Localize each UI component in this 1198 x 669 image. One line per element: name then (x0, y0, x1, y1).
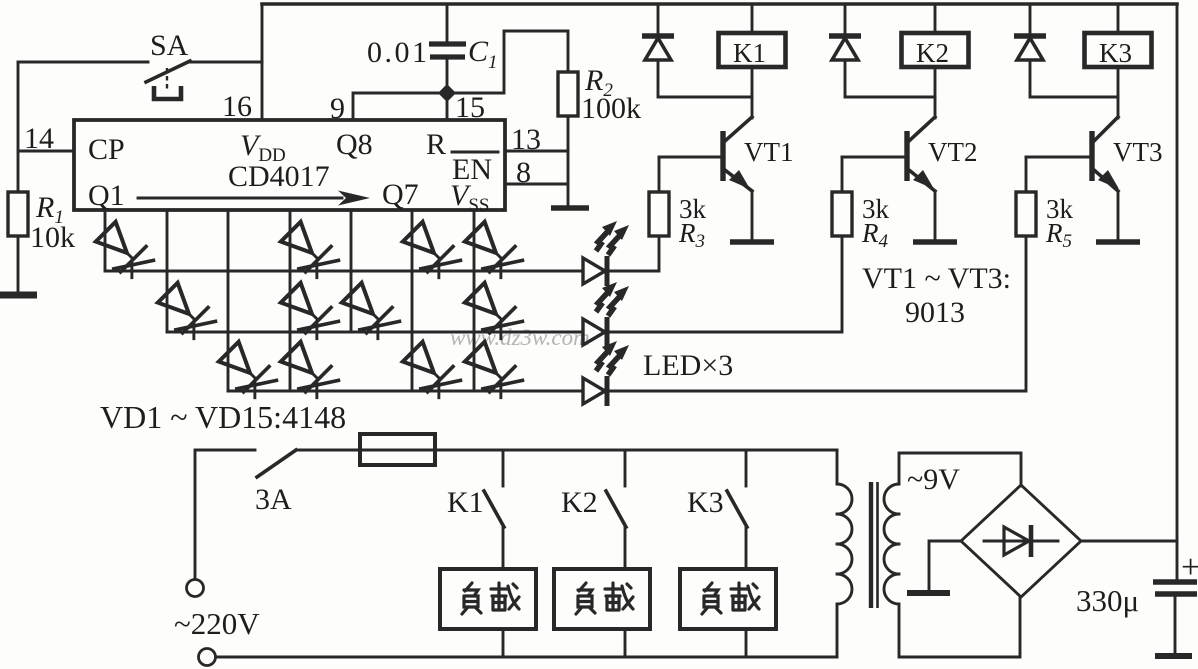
diode (bridge symbol) (984, 540, 1058, 543)
resistor R1 (8, 192, 28, 236)
node: junction at pin15 (438, 84, 456, 102)
resistor R5 3k (1016, 192, 1036, 236)
svg-text:100k: 100k (581, 92, 641, 125)
bridge rectifier diamond (961, 485, 1081, 597)
svg-text:VT3: VT3 (1113, 137, 1163, 167)
ground (VT3 emitter) (1096, 239, 1140, 245)
svg-text:~220V: ~220V (174, 606, 260, 641)
wire: emitter to ground (1117, 191, 1120, 240)
wire: pin8 lead (508, 183, 568, 186)
ground (bridge) (907, 590, 950, 596)
svg-text:Q1: Q1 (88, 179, 125, 212)
svg-text:14: 14 (24, 122, 54, 155)
wire: base lead (1026, 156, 1092, 159)
diode VD3 (matrix col 6 row 1) (397, 219, 464, 286)
svg-text:9013: 9013 (905, 296, 965, 329)
wire: relay K2 top lead (934, 4, 937, 33)
wire: CD4017 output column 4 (289, 210, 292, 391)
LED 2 (583, 319, 605, 345)
svg-text:VT2: VT2 (928, 137, 978, 167)
diode VD11 (matrix col 6 row 3) (397, 339, 464, 406)
svg-text:8: 8 (516, 156, 531, 189)
wire: primary bottom to neutral (836, 604, 839, 657)
capacitor C1 0.01 (429, 44, 466, 57)
diode (freewheel, by K2) (829, 36, 861, 60)
svg-text:CP: CP (88, 133, 125, 166)
wire: 220V live up and across (195, 450, 255, 579)
svg-text:K3: K3 (1099, 38, 1132, 68)
svg-text:K1: K1 (447, 486, 484, 519)
svg-text:R: R (426, 128, 446, 161)
wire: junction to R2 top (454, 31, 568, 93)
wire: base to R3 (658, 157, 661, 192)
wire: base to R5 (1025, 157, 1028, 192)
relay coil K3 (1085, 33, 1152, 67)
switch contact K3 (727, 491, 747, 527)
transistor Q3: VT3 (1089, 131, 1094, 181)
ground (R1) (0, 292, 37, 299)
transistor Q1: VT1 (720, 131, 725, 181)
svg-text:Q7: Q7 (382, 178, 419, 211)
svg-text:VT1: VT1 (744, 137, 794, 167)
transformer T primary winding (836, 450, 839, 484)
wire: VD3 freewheel diode top lead (1029, 4, 1032, 34)
svg-text:16: 16 (222, 90, 252, 123)
wire: contact to load 2 (624, 527, 627, 569)
svg-text:10k: 10k (30, 221, 75, 254)
fuse 3A (360, 434, 435, 465)
wire: pin13 lead (508, 150, 568, 153)
wire: base lead (842, 156, 907, 159)
wire: right supply rail (1176, 4, 1179, 580)
wire: contact to load 1 (502, 527, 505, 569)
wire: CD4017 output column 7 (473, 210, 476, 391)
svg-text:K2: K2 (561, 486, 598, 519)
wire: K1 contact stub (502, 450, 505, 486)
wire: load 2 to neutral (624, 629, 627, 657)
wire: matrix row 1 (105, 270, 583, 273)
wire: left vertical to R1 (17, 62, 20, 192)
load box 1 (fu zai) (440, 569, 536, 629)
wire: Q1->Q7 arrow (138, 197, 342, 200)
wire: LED1 cathode to R3 (607, 236, 659, 271)
wire: emitter to ground (751, 191, 754, 240)
wire: pin14 lead (18, 150, 74, 153)
wire: secondary bottom to bridge (899, 597, 1020, 657)
wire: pin9 link to junction (353, 93, 440, 120)
svg-text:C1: C1 (468, 35, 498, 73)
terminal: 220V top (187, 580, 204, 597)
wire: bridge left to ground (929, 541, 961, 590)
terminal: 220V bottom (199, 649, 216, 666)
diode VD2 (matrix col 4 row 1) (275, 219, 342, 286)
svg-text:330μ: 330μ (1076, 583, 1139, 618)
wire: diode bottom to collector node (658, 60, 752, 97)
svg-text:www.dz3w.com: www.dz3w.com (450, 325, 590, 350)
switch contact K1 (484, 491, 504, 527)
wire: CD4017 output column 6 (411, 210, 414, 391)
wire: CD4017 output column 2 (166, 210, 169, 332)
svg-text:CD4017: CD4017 (228, 160, 330, 193)
switch SA (pushbutton) (146, 61, 190, 82)
switch contact K2 (606, 491, 626, 527)
svg-text:0.01: 0.01 (367, 36, 430, 69)
diode VD4 (matrix col 7 row 1) (459, 219, 526, 286)
wire: switch to fuse (296, 449, 360, 452)
load box 3 (fu zai) (680, 569, 776, 629)
diode (freewheel, by K3) (1014, 36, 1046, 60)
svg-text:K2: K2 (916, 38, 949, 68)
wire: R1 to ground (17, 236, 20, 292)
wire: bridge output to right rail (1081, 540, 1177, 543)
svg-text:LED×3: LED×3 (643, 349, 733, 382)
wire: CD4017 output column 5 (350, 210, 353, 332)
transformer core (869, 482, 873, 608)
wire: cap negative lead (1174, 594, 1177, 653)
wire: LED2 cathode to R4 (607, 236, 842, 332)
wire: fuse to transformer primary (mains bus) (435, 449, 837, 452)
wire: contact to load 3 (745, 527, 748, 569)
ground (cap bottom bar) (1155, 653, 1192, 659)
LED 3 (583, 378, 605, 404)
diode VD8 (matrix col 7 row 2) (459, 280, 526, 347)
wire: R2 bottom to ground (567, 116, 570, 206)
LED 1 (583, 258, 605, 284)
wire: VD2 freewheel diode top lead (844, 4, 847, 34)
transformer secondary winding (884, 484, 899, 604)
wire: load 3 to neutral (745, 629, 748, 657)
wire: base lead (659, 156, 723, 159)
switch 3A blade (257, 450, 296, 477)
wire: LED3 cathode to R5 (607, 236, 1026, 391)
wire: matrix row 3 (228, 390, 583, 393)
svg-text:3A: 3A (255, 483, 292, 516)
svg-text:SA: SA (150, 29, 189, 62)
wire: load 1 to neutral (502, 629, 505, 657)
svg-text:VT1 ~ VT3:: VT1 ~ VT3: (862, 262, 1011, 295)
wire: pin16 vertical drop (261, 4, 264, 120)
svg-text:K1: K1 (733, 38, 766, 68)
resistor R2 (558, 72, 578, 116)
wire: top supply rail (262, 2, 1177, 6)
diode VD10 (matrix col 4 row 3) (275, 339, 342, 406)
wire: K1 bottom to collector (751, 67, 754, 118)
svg-text:13: 13 (511, 123, 541, 156)
diode VD9 (matrix col 3 row 3) (213, 339, 280, 406)
svg-text:VD1 ~ VD15:4148: VD1 ~ VD15:4148 (100, 399, 346, 435)
diode (freewheel, by K1) (642, 36, 674, 60)
ground (VT2 emitter) (913, 239, 957, 245)
op-amp U1: IC CD4017 box (74, 120, 505, 210)
wire: SA branch from left vertical to pin16 drop (18, 61, 262, 64)
diode VD7 (matrix col 5 row 2) (336, 280, 403, 347)
wire: K2 bottom to collector (934, 67, 937, 118)
ground (Vss / R2) (551, 205, 589, 211)
ground (VT1 emitter) (730, 239, 774, 245)
transistor Q2: VT2 (904, 131, 909, 181)
wire: relay K3 top lead (1117, 4, 1120, 33)
resistor R3 3k (649, 192, 669, 236)
wire: mains neutral bus (216, 656, 837, 659)
capacitor C2 330u (1153, 582, 1197, 594)
diode VD6 (matrix col 4 row 2) (275, 280, 342, 347)
wire: emitter to ground (934, 191, 937, 240)
wire: base to R4 (841, 157, 844, 192)
wire: secondary top to bridge (899, 453, 1021, 486)
relay coil K1 (719, 33, 786, 67)
diode VD12 (matrix col 7 row 3) (459, 339, 526, 406)
wire: CD4017 output column 3 (227, 210, 230, 391)
wire: CD4017 output column 1 (104, 210, 107, 271)
relay coil K2 (902, 33, 969, 67)
wire: K2 contact stub (624, 450, 627, 486)
wire: matrix row 2 (167, 331, 583, 334)
wire: C1 top lead (446, 4, 449, 42)
wire: diode bottom to collector node (1030, 60, 1118, 97)
diode VD5 (matrix col 2 row 2) (152, 280, 219, 347)
wire: K3 bottom to collector (1117, 67, 1120, 118)
wire: C1 bottom lead to pin15 (446, 57, 449, 120)
wire: diode bottom to collector node (845, 60, 935, 97)
resistor R4 3k (832, 192, 852, 236)
wire: VD1 freewheel diode top lead (657, 4, 660, 34)
load box 2 (fu zai) (554, 569, 650, 629)
wire: K3 contact stub (745, 450, 748, 486)
diode VD1 (matrix col 1 row 1) (90, 219, 157, 286)
svg-text:K3: K3 (687, 486, 724, 519)
svg-text:~9V: ~9V (907, 463, 960, 496)
svg-text:Q8: Q8 (336, 128, 373, 161)
wire: relay K1 top lead (751, 4, 754, 33)
